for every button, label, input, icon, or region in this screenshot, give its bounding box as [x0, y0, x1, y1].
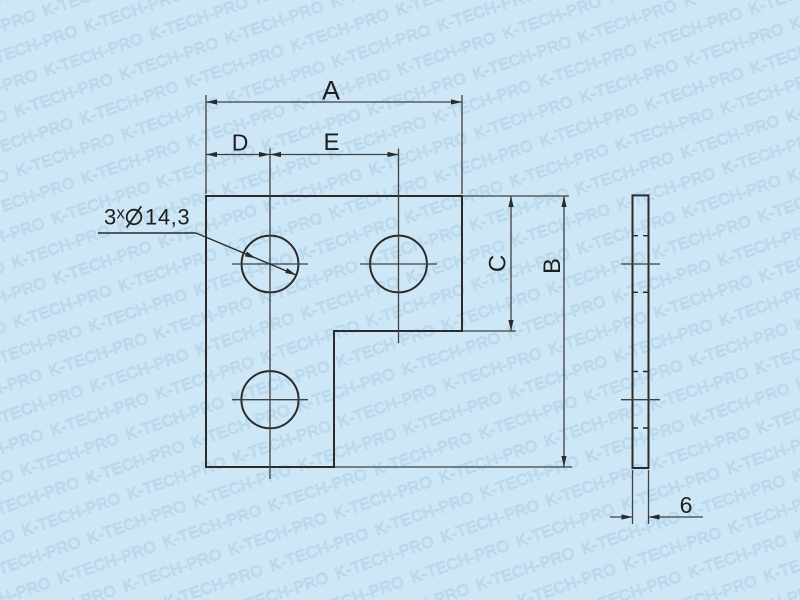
dimension line D and E	[206, 152, 399, 157]
plate outline (front view, L-shaped)	[206, 196, 462, 467]
side view hidden line hole top 3	[633, 371, 649, 373]
svg-text:D: D	[232, 130, 249, 156]
centerline vertical through H2	[398, 149, 400, 344]
dimension line 6	[610, 514, 703, 519]
centerline horizontal H3	[232, 399, 308, 401]
side view hidden line hole bottom 1	[633, 291, 649, 293]
callout leader line	[196, 233, 296, 275]
extension line A right	[461, 95, 463, 194]
svg-text:3: 3	[104, 205, 116, 230]
extension line A left	[205, 95, 207, 194]
leader arrowhead 1	[245, 252, 256, 259]
callout underline	[98, 232, 196, 234]
side view centerline H3	[621, 399, 660, 401]
svg-text:14,3: 14,3	[145, 205, 190, 230]
svg-text:6: 6	[680, 492, 693, 518]
hole H3 bottom	[241, 371, 298, 428]
side view plate body	[633, 195, 649, 468]
centerline horizontal H2	[360, 263, 437, 265]
side view centerline H1/H2	[621, 263, 660, 265]
svg-text:E: E	[323, 129, 339, 156]
svg-text:B: B	[539, 258, 566, 274]
dimension line B	[561, 196, 566, 467]
hole callout text 3x diameter 14,3	[104, 205, 190, 230]
side view hidden line hole top 1	[633, 235, 649, 237]
hole H1 top-left	[242, 236, 299, 293]
extension line thickness left	[632, 470, 634, 524]
extension line bottom right (for B)	[335, 466, 572, 468]
centerline vertical through H1 and H3	[269, 149, 271, 480]
hole H2 top-right	[370, 236, 427, 293]
svg-text:C: C	[485, 255, 512, 272]
extension line top right (for C and B)	[463, 195, 569, 197]
centerline horizontal H1	[232, 263, 308, 265]
extension line thickness right	[648, 470, 650, 524]
extension line notch right (for C)	[463, 330, 516, 332]
dimension line C	[508, 196, 513, 331]
side view hidden line hole bottom 3	[633, 427, 649, 429]
svg-text:A: A	[322, 76, 340, 106]
dimension line A	[206, 99, 462, 104]
leader arrowhead 2	[285, 268, 296, 275]
svg-text:x: x	[117, 205, 126, 223]
